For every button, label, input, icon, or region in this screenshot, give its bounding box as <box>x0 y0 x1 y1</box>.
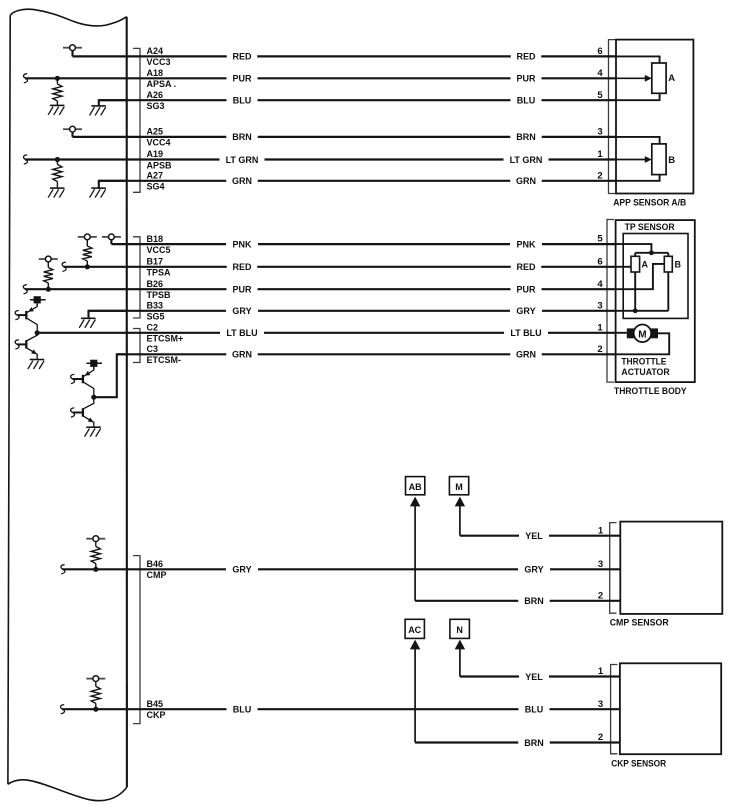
transistor Q3 (PNP high side) <box>82 375 84 383</box>
svg-text:TPSB: TPSB <box>147 290 172 300</box>
svg-text:BLU: BLU <box>517 96 536 106</box>
ground (ETCSM- driver) <box>85 427 101 437</box>
ground (SG5) <box>79 318 95 328</box>
wire pin6 to TP pot A <box>616 266 631 268</box>
arrow to AC / wire BRN (CKP pin2) <box>410 640 420 650</box>
svg-text:1: 1 <box>597 149 603 160</box>
svg-text:PNK: PNK <box>516 239 536 249</box>
throttle body box <box>616 220 695 382</box>
junction dot (B45) <box>93 707 98 712</box>
wire pin5 to pot bus <box>616 244 651 253</box>
wire C2 LT BLU <box>37 328 616 338</box>
wire break squiggle <box>23 285 27 294</box>
svg-text:GRY: GRY <box>232 565 251 575</box>
junction dot (A19 pull-down) <box>55 157 60 162</box>
svg-text:BLU: BLU <box>525 705 544 715</box>
svg-text:PNK: PNK <box>232 239 252 249</box>
svg-text:3: 3 <box>597 300 602 311</box>
wire SG4 riser <box>99 181 127 188</box>
svg-text:2: 2 <box>597 344 602 355</box>
TP pot top bus <box>635 252 668 254</box>
svg-text:6: 6 <box>597 46 602 57</box>
wire break squiggle (Q3 base) <box>71 374 75 383</box>
svg-text:A25: A25 <box>147 127 164 137</box>
svg-text:YEL: YEL <box>525 531 543 541</box>
svg-text:RED: RED <box>516 262 536 272</box>
svg-text:CKP SENSOR: CKP SENSOR <box>611 759 666 770</box>
wire pin6 to pot A top <box>616 56 660 63</box>
pin label A24/VCC3 <box>147 46 171 67</box>
pin label A18/APSA <box>147 68 177 89</box>
wire break squiggle <box>62 262 66 271</box>
resistor (TPSA pull-up) <box>86 240 88 246</box>
pin label B45/CKP <box>147 699 166 720</box>
svg-text:SG4: SG4 <box>147 182 165 192</box>
pin label C3/ETCSM- <box>147 344 182 365</box>
svg-text:SG5: SG5 <box>147 312 165 322</box>
svg-text:GRN: GRN <box>232 350 252 360</box>
junction dot (B17) <box>85 264 90 269</box>
svg-text:TP SENSOR: TP SENSOR <box>625 222 675 232</box>
svg-text:1: 1 <box>598 525 604 536</box>
svg-text:B17: B17 <box>147 257 164 267</box>
potentiometer A <box>652 63 666 93</box>
ground (APSA pull-down) <box>48 105 64 115</box>
svg-text:M: M <box>638 329 646 340</box>
svg-text:GRN: GRN <box>232 176 252 186</box>
wire ETCSM- to pin C3 <box>94 354 127 397</box>
TP potentiometer A <box>631 256 640 272</box>
svg-text:A19: A19 <box>147 149 164 159</box>
svg-text:BRN: BRN <box>516 132 536 142</box>
5V ref connector circle (VCC4) <box>63 126 82 132</box>
wire pin2 to pot B bottom <box>616 175 660 181</box>
svg-text:A27: A27 <box>147 171 164 181</box>
svg-text:LT BLU: LT BLU <box>510 328 541 338</box>
5V ref connector circle (VCC5) <box>102 234 121 240</box>
wiper arrow B (pin 1) <box>616 156 652 163</box>
svg-text:YEL: YEL <box>525 672 543 682</box>
wire break squiggle <box>61 705 65 714</box>
motor M (throttle actuator) <box>634 325 652 343</box>
wire pin4 to TP pot B <box>616 264 664 289</box>
svg-text:BLU: BLU <box>233 705 252 715</box>
svg-text:C3: C3 <box>147 344 159 354</box>
resistor (APSA pull-down) <box>56 78 58 84</box>
svg-text:GRY: GRY <box>232 306 251 316</box>
svg-text:5: 5 <box>597 90 603 101</box>
svg-text:B26: B26 <box>147 279 164 289</box>
svg-text:BRN: BRN <box>524 596 544 606</box>
connector bracket (CMP sensor) <box>610 523 617 614</box>
wiper arrow A (pin 4) <box>616 75 652 82</box>
svg-text:CMP: CMP <box>147 570 167 580</box>
svg-text:VCC3: VCC3 <box>147 57 171 67</box>
wire pin5 to pot A bottom <box>616 93 660 100</box>
svg-text:TPSA: TPSA <box>147 268 172 278</box>
ground (SG4) <box>90 188 106 198</box>
wire VCC3 drop <box>71 51 73 57</box>
svg-text:THROTTLE BODY: THROTTLE BODY <box>614 386 687 397</box>
pin label B17/TPSA <box>147 257 172 278</box>
wire VCC5 drop <box>110 240 112 244</box>
ECM/PCM module outline (torn box) <box>10 9 127 26</box>
junction dot (TP bus) <box>649 250 654 255</box>
svg-text:AC: AC <box>408 625 421 635</box>
wire A18 PUR <box>25 74 616 84</box>
svg-text:A: A <box>668 73 675 84</box>
svg-text:APSA .: APSA . <box>147 79 177 89</box>
svg-text:BRN: BRN <box>524 738 544 748</box>
pin label A25/VCC4 <box>147 127 171 148</box>
connector bracket (ECM rows C2-C3) <box>133 329 140 363</box>
wire SG3 riser <box>99 100 127 106</box>
svg-text:PUR: PUR <box>516 285 536 295</box>
wire B18 PNK <box>111 239 616 249</box>
svg-text:2: 2 <box>597 170 602 181</box>
svg-text:GRY: GRY <box>524 565 543 575</box>
5V ref connector circle (CMP pull-up) <box>86 536 105 542</box>
svg-text:LT GRN: LT GRN <box>510 155 543 165</box>
svg-text:GRN: GRN <box>516 350 536 360</box>
ground (APSB pull-down) <box>48 188 64 198</box>
svg-text:3: 3 <box>597 127 602 138</box>
resistor (CKP pull-up) <box>95 682 97 687</box>
svg-text:LT BLU: LT BLU <box>226 328 257 338</box>
svg-text:APP SENSOR A/B: APP SENSOR A/B <box>613 198 686 209</box>
supply tap (ETCSM- driver) <box>86 362 102 364</box>
junction dot (ETCSM+ node) <box>35 330 40 335</box>
connector bracket (throttle body) <box>607 220 614 383</box>
wire B17 RED <box>64 262 616 272</box>
svg-text:APSB: APSB <box>147 160 173 170</box>
svg-text:BLU: BLU <box>233 96 252 106</box>
pin label B46/CMP <box>147 559 167 580</box>
svg-text:GRN: GRN <box>516 176 536 186</box>
junction dot (TP ground bus) <box>633 308 638 313</box>
wire C3 GRN <box>117 350 616 360</box>
wire break squiggle <box>24 74 28 83</box>
wire pin2 to motor <box>616 333 669 354</box>
wire BRN CMP <box>415 596 620 606</box>
svg-text:3: 3 <box>598 559 603 570</box>
svg-text:A26: A26 <box>147 90 164 100</box>
svg-text:CKP: CKP <box>147 710 166 720</box>
svg-text:5: 5 <box>597 234 603 245</box>
wire B26 PUR <box>25 285 616 295</box>
TP sensor inner box <box>623 234 688 319</box>
svg-text:1: 1 <box>598 666 604 677</box>
svg-text:A18: A18 <box>147 68 164 78</box>
svg-text:GRY: GRY <box>516 306 535 316</box>
svg-text:PUR: PUR <box>516 74 536 84</box>
svg-text:ETCSM+: ETCSM+ <box>147 334 184 344</box>
junction dot (B26) <box>46 287 51 292</box>
svg-text:VCC4: VCC4 <box>147 138 171 148</box>
transistor Q1 (PNP high side) <box>25 311 27 319</box>
arrow to N / wire YEL (CKP pin1) <box>455 640 465 650</box>
svg-text:ACTUATOR: ACTUATOR <box>621 367 669 378</box>
svg-text:M: M <box>455 482 463 492</box>
connector bracket (ECM rows B18-SG5) <box>133 237 140 318</box>
connector box AC <box>405 619 424 638</box>
svg-text:B46: B46 <box>147 559 164 569</box>
svg-text:LT GRN: LT GRN <box>226 155 259 165</box>
svg-text:BRN: BRN <box>232 132 252 142</box>
wire B45 BLU <box>62 705 620 715</box>
svg-text:A24: A24 <box>147 46 164 56</box>
wire break squiggle (Q4 base) <box>71 408 75 417</box>
wire VCC4 drop <box>71 132 73 137</box>
wire A27 GRN <box>99 176 616 186</box>
wire YEL CKP <box>460 672 620 682</box>
CKP sensor box <box>620 663 721 754</box>
pin label B18/VCC5 <box>147 234 171 255</box>
svg-text:N: N <box>456 625 463 635</box>
pin label C2/ETCSM+ <box>147 323 184 344</box>
wire break squiggle <box>24 155 28 164</box>
svg-text:A: A <box>642 259 649 269</box>
5V ref connector circle (VCC3) <box>63 45 82 51</box>
pin label B33/SG5 <box>147 301 165 322</box>
ground (SG3) <box>90 106 106 116</box>
transistor Q4 (NPN low side) <box>82 408 84 416</box>
wire A19 LT GRN <box>25 155 616 165</box>
5V ref connector circle (TPSB pull-up) <box>39 256 58 262</box>
pin label A19/APSB <box>147 149 173 170</box>
connector bracket (ECM rows A24-SG4) <box>133 48 140 192</box>
wire A25 BRN <box>73 132 617 142</box>
svg-text:2: 2 <box>598 732 603 743</box>
svg-text:RED: RED <box>232 52 252 62</box>
svg-text:B: B <box>675 259 682 269</box>
svg-text:2: 2 <box>598 590 603 601</box>
wire BRN CKP <box>415 738 620 748</box>
wire pin3 TP ground bus <box>616 310 668 312</box>
svg-text:PUR: PUR <box>232 285 252 295</box>
connector bracket (CKP sensor) <box>611 665 618 754</box>
wire A26 BLU <box>99 96 616 106</box>
svg-text:B45: B45 <box>147 699 164 709</box>
svg-text:1: 1 <box>597 322 603 333</box>
svg-text:6: 6 <box>597 256 602 267</box>
motor M brushes <box>627 328 635 338</box>
wire B46 GRY <box>62 565 620 575</box>
TP potentiometer B <box>664 256 672 272</box>
arrow to M / wire YEL (CMP pin1) <box>455 497 465 507</box>
svg-text:3: 3 <box>598 699 603 710</box>
potentiometer B <box>652 144 666 175</box>
svg-text:B33: B33 <box>147 301 164 311</box>
wire break squiggle <box>61 565 65 574</box>
svg-text:4: 4 <box>597 279 603 290</box>
APP sensor box <box>616 40 693 194</box>
svg-text:VCC5: VCC5 <box>147 245 171 255</box>
5V ref connector circle (CKP pull-up) <box>86 676 105 682</box>
wire pin1 to motor <box>616 332 627 334</box>
resistor (TPSB pull-up) <box>47 262 49 268</box>
5V ref connector circle (TPSA pull-up) <box>78 234 97 240</box>
wire break squiggle (Q2 base) <box>15 340 19 349</box>
pin label A27/SG4 <box>147 171 165 192</box>
junction dot (B46) <box>93 567 98 572</box>
svg-text:4: 4 <box>597 68 603 79</box>
wire break squiggle (Q1 base) <box>15 311 19 320</box>
junction dot (A18 pull-down) <box>55 76 60 81</box>
connector box M <box>449 477 468 495</box>
svg-text:B: B <box>668 155 675 166</box>
pin label A26/SG3 <box>147 90 165 111</box>
connector bracket (APP sensor) <box>609 40 616 194</box>
CMP sensor box <box>620 522 722 614</box>
arrow to AB / wire BRN (CMP pin2) <box>410 497 420 507</box>
svg-text:AB: AB <box>409 482 422 492</box>
ground (ETCSM+ driver) <box>28 360 44 370</box>
resistor (CMP pull-up) <box>95 542 97 547</box>
svg-text:ETCSM-: ETCSM- <box>147 355 182 365</box>
svg-text:SG3: SG3 <box>147 101 165 111</box>
wire YEL CMP <box>460 531 620 541</box>
pin label B26/TPSB <box>147 279 172 300</box>
transistor Q2 (NPN low side) <box>25 340 27 348</box>
svg-text:C2: C2 <box>147 323 159 333</box>
wire SG5 riser <box>89 311 127 319</box>
supply tap (ETCSM+ driver) <box>30 299 46 301</box>
connector bracket (ECM rows B46/B45) <box>133 556 140 724</box>
svg-text:RED: RED <box>232 262 252 272</box>
svg-text:CMP SENSOR: CMP SENSOR <box>610 617 669 628</box>
resistor (APSB pull-down) <box>56 160 58 165</box>
wire pin3 to pot B top <box>616 137 660 144</box>
wire B33 GRY <box>89 306 616 316</box>
connector box AB <box>406 477 425 495</box>
connector box N <box>450 619 470 638</box>
svg-text:RED: RED <box>516 52 536 62</box>
svg-text:B18: B18 <box>147 234 164 244</box>
wire A24 RED <box>73 52 617 62</box>
junction dot (ETCSM- node) <box>91 395 96 400</box>
svg-text:PUR: PUR <box>232 74 252 84</box>
